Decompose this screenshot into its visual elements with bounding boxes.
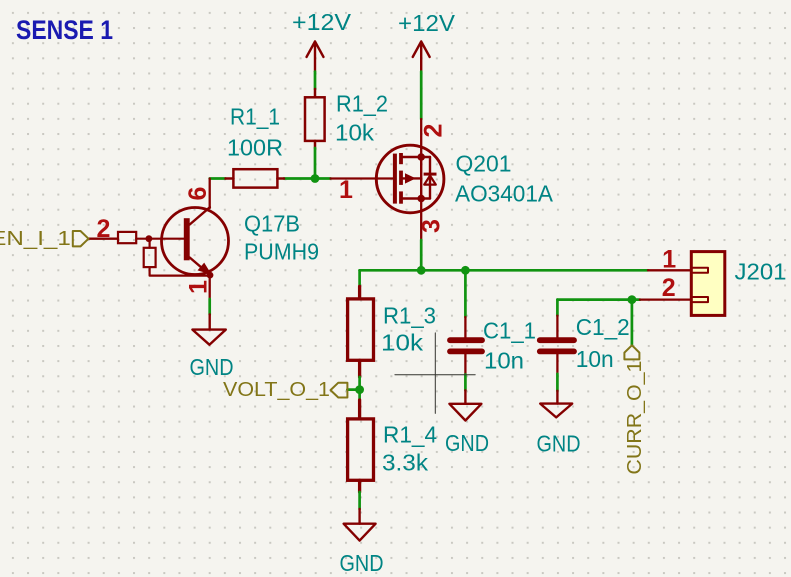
svg-text:10n: 10n: [576, 346, 614, 372]
drain connection bottom: [403, 197, 430, 199]
base bar: [184, 218, 190, 260]
wire R1_1 to Q201 gate (horizontal): [210, 177, 226, 180]
svg-text:2: 2: [662, 274, 676, 302]
svg-text:EN_I_1: EN_I_1: [0, 227, 71, 250]
power +12V symbol (left, above R1_2): [307, 42, 324, 72]
collector diagonal: [190, 207, 210, 224]
ground below R1_4: [344, 509, 376, 541]
body diode branch: [429, 157, 431, 199]
wire R1_4 to GND: [358, 492, 361, 509]
svg-text:1: 1: [339, 176, 353, 204]
svg-text:R1_1: R1_1: [230, 103, 280, 129]
node emitter junction: [207, 272, 214, 279]
resistor R1_2: [305, 89, 325, 148]
svg-text:VOLT_O_1: VOLT_O_1: [223, 378, 330, 401]
wire down to R1_3: [358, 270, 361, 286]
svg-text:C1_1: C1_1: [483, 317, 536, 343]
svg-text:3.3k: 3.3k: [382, 450, 429, 476]
channel segment bottom: [399, 191, 403, 203]
wire C1_1 to GND: [464, 375, 467, 391]
hierarchical label VOLT_O_1: [223, 378, 347, 401]
wire Q201 drain down: [420, 240, 423, 270]
svg-text:GND: GND: [537, 431, 581, 457]
junction at R1_2 bottom: [311, 174, 320, 183]
wire main horizontal to J201 pin1: [360, 269, 648, 272]
node source dot: [417, 153, 425, 161]
transistor circle: [162, 208, 229, 275]
junction C1_1: [461, 266, 470, 275]
resistor R1_4: [348, 400, 374, 492]
node base junction: [146, 235, 153, 242]
node drain dot: [417, 195, 425, 203]
mosfet Q201 AO3401A: [331, 119, 448, 240]
hierarchical label EN_I_1: [0, 227, 89, 250]
svg-text:3: 3: [418, 219, 446, 233]
emitter diagonal: [190, 258, 210, 275]
resistor R1_3: [348, 286, 374, 377]
junction CURR: [628, 295, 637, 304]
wire VOLT label to junction: [347, 388, 359, 391]
middle connection: [403, 177, 421, 179]
wire junction to C1_1: [464, 270, 467, 317]
diode triangle: [424, 176, 436, 185]
svg-text:100R: 100R: [227, 135, 283, 161]
svg-text:GND: GND: [445, 430, 489, 456]
channel segment top: [399, 153, 403, 164]
svg-text:+12V: +12V: [398, 10, 456, 36]
resistor R1_1: [226, 169, 285, 187]
svg-text:2: 2: [97, 215, 111, 243]
emitter arrowhead: [198, 263, 212, 275]
svg-text:GND: GND: [340, 550, 384, 576]
channel segment middle: [399, 171, 403, 185]
cursor crosshair: [395, 333, 475, 414]
wire junction to CURR label: [631, 300, 634, 346]
svg-text:C1_2: C1_2: [576, 314, 630, 340]
pin 1: [648, 269, 691, 271]
svg-text:1: 1: [662, 246, 676, 274]
junction VOLT_O_1: [355, 385, 364, 394]
svg-text:GND: GND: [190, 354, 234, 380]
pin 3 (drain, bottom): [420, 199, 422, 241]
svg-text:Q17B: Q17B: [244, 211, 300, 237]
ground below Q17B: [192, 315, 225, 345]
capacitor C1_2: [540, 316, 574, 374]
junction Q201 drain: [417, 266, 426, 275]
base-emitter resistor: [149, 239, 151, 248]
svg-text:R1_4: R1_4: [383, 421, 437, 447]
svg-text:AO3401A: AO3401A: [455, 181, 553, 207]
pin 2 (input): [89, 238, 119, 240]
power +12V symbol (right, above Q201): [413, 42, 430, 72]
diode cathode bar: [424, 173, 437, 176]
svg-text:+12V: +12V: [292, 9, 352, 35]
wire C1_2 to GND: [556, 374, 559, 391]
svg-text:SENSE 1: SENSE 1: [16, 15, 113, 45]
svg-text:PUMH9: PUMH9: [244, 239, 319, 265]
wire Q17B emitter to GND: [208, 299, 211, 315]
svg-text:1: 1: [184, 280, 212, 294]
bulk arrow: [405, 173, 416, 183]
gate bar: [393, 154, 397, 204]
svg-text:2: 2: [420, 124, 448, 138]
ground below C1_1: [449, 390, 481, 420]
hierarchical label CURR_O_1: [623, 345, 646, 474]
wire J201 pin2 branch: [557, 298, 640, 301]
pin 2: [640, 298, 691, 300]
base resistor: [118, 232, 136, 243]
wire +12V to R1_2: [314, 72, 317, 89]
circle: [376, 145, 444, 213]
svg-text:10n: 10n: [484, 347, 524, 373]
pin 1 (gate): [331, 177, 393, 179]
capacitor C1_1: [450, 317, 482, 375]
transistor Q17B (PUMH9 digital transistor): [89, 179, 229, 300]
svg-text:R1_3: R1_3: [383, 302, 436, 328]
pin 6 (collector): [209, 179, 211, 209]
svg-text:R1_2: R1_2: [336, 90, 388, 116]
ground below C1_2: [540, 391, 572, 418]
svg-text:J201: J201: [735, 259, 787, 285]
svg-text:CURR_O_1: CURR_O_1: [623, 361, 646, 475]
svg-text:Q201: Q201: [456, 151, 512, 177]
vertical S/D line: [420, 157, 422, 199]
source connection top: [403, 156, 430, 158]
svg-text:6: 6: [184, 187, 212, 201]
wire +12V to Q201 pin2: [420, 72, 423, 119]
wire R1_3 to VOLT junction: [358, 377, 361, 400]
pin 1 (emitter): [209, 275, 211, 299]
pin 2 (source, top): [420, 119, 422, 157]
svg-text:10k: 10k: [335, 120, 375, 146]
connector J201: [640, 246, 725, 316]
svg-text:10k: 10k: [381, 330, 424, 356]
wire R1_2 to junction: [314, 148, 317, 179]
